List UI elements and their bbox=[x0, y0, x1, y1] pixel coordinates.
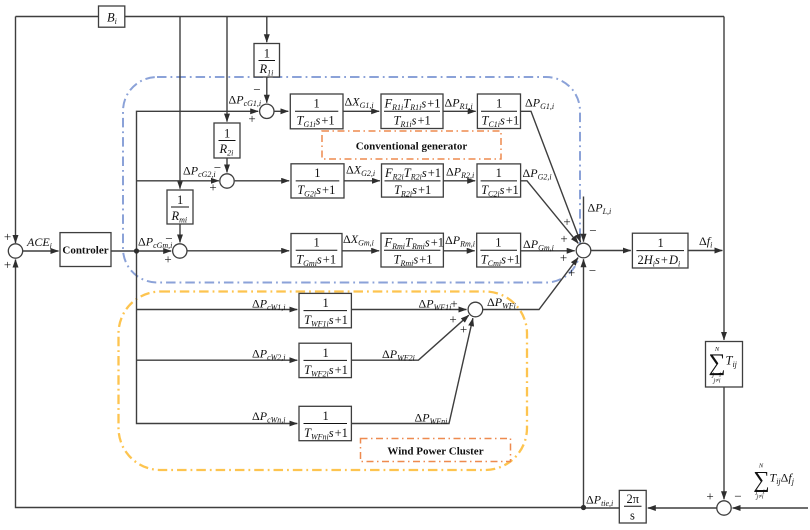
wire C2 output diagonal to main sum bbox=[521, 181, 579, 244]
block Controler bbox=[60, 233, 111, 267]
label frame Wind Power Cluster (orange dash-dot) bbox=[361, 439, 511, 462]
svg-text:1: 1 bbox=[496, 166, 502, 180]
wire branch to wind row1 bbox=[137, 309, 298, 311]
bar 2H bbox=[636, 250, 684, 252]
bar WF2 bbox=[304, 359, 348, 361]
bar Gm bbox=[296, 249, 338, 251]
wire 1/Rmi to sum S3 bbox=[179, 224, 181, 242]
summing junction S1 bbox=[260, 104, 274, 118]
wire ACE sum to Controler bbox=[23, 250, 59, 252]
svg-text:TC2is+1: TC2is+1 bbox=[481, 183, 519, 199]
wire wind WF2 diagonal to wind sum bbox=[351, 315, 468, 360]
svg-text:+: + bbox=[4, 257, 11, 272]
wire right vertical Delta f down to Sum Tij bbox=[723, 17, 725, 340]
svg-text:Conventional generator: Conventional generator bbox=[356, 141, 468, 153]
svg-text:s: s bbox=[630, 509, 635, 523]
wire drop to 1/R2i bbox=[226, 17, 228, 122]
svg-text:TijΔfj: TijΔfj bbox=[770, 471, 795, 487]
svg-text:1: 1 bbox=[224, 127, 230, 141]
svg-text:+: + bbox=[4, 229, 11, 244]
wire load disturbance DeltaP_L into main sum bbox=[583, 197, 585, 242]
block turbine Cm bbox=[477, 233, 521, 267]
svg-text:1: 1 bbox=[658, 236, 664, 250]
svg-text:1: 1 bbox=[323, 296, 329, 310]
bar Cm bbox=[480, 249, 517, 251]
svg-text:−: − bbox=[214, 160, 221, 175]
wire drop to 1/R1i bbox=[266, 17, 268, 43]
wire branch to wind row2 bbox=[137, 359, 298, 361]
svg-text:+: + bbox=[449, 312, 456, 327]
block turbine C2 bbox=[477, 164, 521, 197]
wire sum S3 to governor Gm bbox=[187, 250, 289, 252]
svg-text:+: + bbox=[560, 250, 567, 265]
svg-text:ΔXG1,i: ΔXG1,i bbox=[345, 95, 374, 111]
node after Controler bbox=[134, 248, 139, 253]
wire Gm to reheat Fm bbox=[342, 250, 379, 252]
wire 2pi/s to tie-line node bbox=[584, 507, 620, 509]
wire bottom tie-line feedback to ACE sum bbox=[16, 260, 584, 508]
wire Controler to node and sum S3 bbox=[111, 250, 171, 252]
bar 2pi/s bbox=[624, 505, 642, 507]
svg-text:ΔPGm,i: ΔPGm,i bbox=[523, 237, 554, 253]
svg-text:1: 1 bbox=[314, 97, 320, 111]
svg-text:−: − bbox=[734, 489, 741, 504]
svg-text:ΔPWFi: ΔPWFi bbox=[487, 295, 516, 311]
block reheat F2 bbox=[382, 164, 444, 197]
svg-text:ΔPG1,i: ΔPG1,i bbox=[525, 96, 554, 112]
summing junction ACE bbox=[8, 244, 22, 258]
bar WFn bbox=[304, 423, 348, 425]
block governor G2 bbox=[291, 164, 344, 198]
svg-text:ΔPcW1,i: ΔPcW1,i bbox=[252, 297, 286, 313]
wire 1/R1i to sum S1 bbox=[266, 77, 268, 103]
svg-text:TRmis+1: TRmis+1 bbox=[394, 253, 433, 269]
svg-text:ΔPcW2,i: ΔPcW2,i bbox=[252, 347, 286, 363]
svg-text:ΔXG2,i: ΔXG2,i bbox=[346, 163, 375, 179]
wire sum S1 to governor G1 bbox=[274, 110, 288, 112]
svg-text:1: 1 bbox=[264, 47, 270, 61]
block governor Gm bbox=[291, 234, 342, 267]
wire wind sum output DeltaP_WFi diagonal to main sum bbox=[483, 258, 578, 310]
block reheat Fm bbox=[381, 233, 443, 267]
wire branch node up to row1 sum S1 bbox=[137, 111, 259, 251]
svg-text:+: + bbox=[568, 265, 575, 280]
summing junction S2 bbox=[220, 174, 234, 188]
wire wind WFn diagonal to wind sum bbox=[351, 318, 473, 423]
conventional generator zone boundary (blue dash-dot rounded) bbox=[123, 77, 580, 283]
block wind farm WF2 bbox=[299, 343, 351, 377]
svg-text:TR2is+1: TR2is+1 bbox=[394, 183, 431, 199]
svg-text:Δfi: Δfi bbox=[699, 234, 712, 250]
bar G2 bbox=[296, 180, 340, 182]
svg-text:N: N bbox=[758, 463, 764, 470]
svg-text:+: + bbox=[460, 322, 467, 337]
label frame Conventional generator (orange dash-dot) bbox=[322, 131, 501, 159]
block swing equation 1/(2His+Di) bbox=[632, 233, 688, 268]
svg-text:ΔPR1,i: ΔPR1,i bbox=[445, 96, 473, 112]
wire Cm output to main sum bbox=[521, 250, 575, 252]
svg-text:j≠i: j≠i bbox=[755, 494, 763, 501]
svg-text:+: + bbox=[706, 489, 713, 504]
svg-text:1: 1 bbox=[314, 166, 320, 180]
bar C1 bbox=[481, 110, 517, 112]
svg-text:ΔPR2,i: ΔPR2,i bbox=[446, 165, 474, 181]
svg-text:TCmis+1: TCmis+1 bbox=[481, 253, 520, 269]
wire Sum Tij Delta fj input from right bbox=[733, 507, 808, 509]
wire top feedback (Delta f to B_i to left frame) bbox=[16, 16, 725, 18]
bar F2 bbox=[385, 180, 441, 182]
bar WF1 bbox=[304, 310, 348, 312]
block wind farm WF1 bbox=[299, 293, 351, 327]
wire swing block output Delta f to right vertical bbox=[688, 250, 722, 252]
svg-text:ACEi: ACEi bbox=[26, 235, 52, 251]
svg-text:+: + bbox=[563, 214, 570, 229]
summing junction wind cluster bbox=[468, 302, 483, 317]
svg-text:TR1is+1: TR1is+1 bbox=[394, 114, 431, 130]
wire F2 to turbine C2 bbox=[443, 180, 475, 182]
svg-text:j≠i: j≠i bbox=[712, 378, 720, 385]
block wind farm WFn bbox=[299, 406, 351, 440]
block governor G1 bbox=[290, 94, 343, 129]
wire G1 to reheat F1 bbox=[343, 110, 379, 112]
bar G1 bbox=[295, 110, 338, 112]
bar 1/R1i bbox=[259, 60, 276, 62]
svg-text:TG1is+1: TG1is+1 bbox=[297, 114, 335, 130]
svg-text:+: + bbox=[450, 296, 457, 311]
block 1/Rmi bbox=[167, 190, 193, 224]
svg-text:−: − bbox=[165, 231, 172, 246]
block 2pi/s bbox=[619, 490, 646, 523]
wire drop to 1/Rmi bbox=[179, 17, 181, 189]
svg-text:ΔPWF2i: ΔPWF2i bbox=[382, 347, 415, 363]
block 1/R2i bbox=[214, 123, 240, 158]
wire Fm to turbine Cm bbox=[443, 250, 474, 252]
svg-text:N: N bbox=[714, 346, 720, 353]
wire tie-line node up to main sum bbox=[583, 259, 585, 507]
bar 1/R2i bbox=[219, 140, 236, 142]
svg-text:TGmis+1: TGmis+1 bbox=[296, 253, 336, 269]
svg-text:TG2is+1: TG2is+1 bbox=[297, 183, 335, 199]
wire F1 to turbine C1 bbox=[443, 110, 476, 112]
wire C1 output diagonal to main sum bbox=[521, 111, 581, 242]
svg-text:ΔPG2,i: ΔPG2,i bbox=[523, 166, 552, 182]
svg-text:2π: 2π bbox=[627, 492, 640, 506]
summing junction S3 bbox=[173, 244, 187, 258]
svg-text:Wind Power Cluster: Wind Power Cluster bbox=[387, 446, 483, 458]
summing junction tie-line bbox=[717, 501, 731, 515]
wire wind WF1 to wind sum bbox=[351, 309, 466, 311]
wire G2 to reheat F2 bbox=[344, 180, 380, 182]
svg-text:ΔPL,i: ΔPL,i bbox=[588, 201, 612, 217]
summing junction main (rotor) bbox=[576, 243, 591, 258]
svg-text:ΔPtie,i: ΔPtie,i bbox=[586, 493, 613, 509]
svg-text:−: − bbox=[589, 223, 596, 238]
svg-text:−: − bbox=[253, 82, 260, 97]
svg-text:+: + bbox=[209, 180, 216, 195]
wire branch to row2 sum S2 bbox=[137, 180, 219, 182]
wind power cluster zone boundary (yellow dash-dot rounded) bbox=[119, 292, 528, 471]
wire 1/R2i to sum S2 bbox=[226, 158, 228, 172]
bar Fm bbox=[384, 249, 440, 251]
wire left frame down to ACE sum + input bbox=[15, 17, 17, 244]
svg-text:1: 1 bbox=[496, 97, 502, 111]
svg-text:ΔPcG2,i: ΔPcG2,i bbox=[183, 164, 216, 180]
block turbine C1 bbox=[477, 94, 520, 129]
bar 1/Rmi bbox=[171, 206, 189, 208]
svg-text:TC1is+1: TC1is+1 bbox=[482, 114, 520, 130]
svg-text:ΔPRm,i: ΔPRm,i bbox=[445, 233, 475, 249]
svg-text:1: 1 bbox=[177, 193, 183, 207]
block sum Tij bbox=[706, 342, 743, 388]
svg-text:ΔPWF1i: ΔPWF1i bbox=[419, 297, 452, 313]
svg-text:Controler: Controler bbox=[62, 245, 108, 257]
svg-text:ΔXGm,i: ΔXGm,i bbox=[343, 232, 374, 248]
block B_i bbox=[99, 6, 125, 27]
svg-text:+: + bbox=[560, 231, 567, 246]
wire Sum Tij to bottom sum bbox=[723, 387, 725, 499]
svg-text:+: + bbox=[248, 111, 255, 126]
svg-text:1: 1 bbox=[323, 409, 329, 423]
svg-text:+: + bbox=[164, 252, 171, 267]
node tie-line junction bbox=[581, 505, 586, 510]
svg-text:−: − bbox=[589, 263, 596, 278]
svg-text:2His+Di: 2His+Di bbox=[638, 253, 681, 269]
svg-text:1: 1 bbox=[495, 236, 501, 250]
bar F1 bbox=[384, 110, 440, 112]
svg-text:ΔPWFni: ΔPWFni bbox=[415, 411, 448, 427]
wire bottom sum to 2pi/s block bbox=[648, 507, 717, 509]
svg-text:1: 1 bbox=[314, 236, 320, 250]
wire branch node down to wind row3 bbox=[137, 251, 298, 424]
svg-text:ΔPcWn,i: ΔPcWn,i bbox=[252, 409, 286, 425]
wire sum S2 to governor G2 bbox=[235, 180, 290, 182]
wire main sum to swing block bbox=[591, 250, 631, 252]
svg-text:1: 1 bbox=[323, 346, 329, 360]
bar C2 bbox=[481, 180, 517, 182]
block 1/R1i bbox=[254, 44, 280, 78]
block reheat F1 bbox=[381, 94, 443, 129]
